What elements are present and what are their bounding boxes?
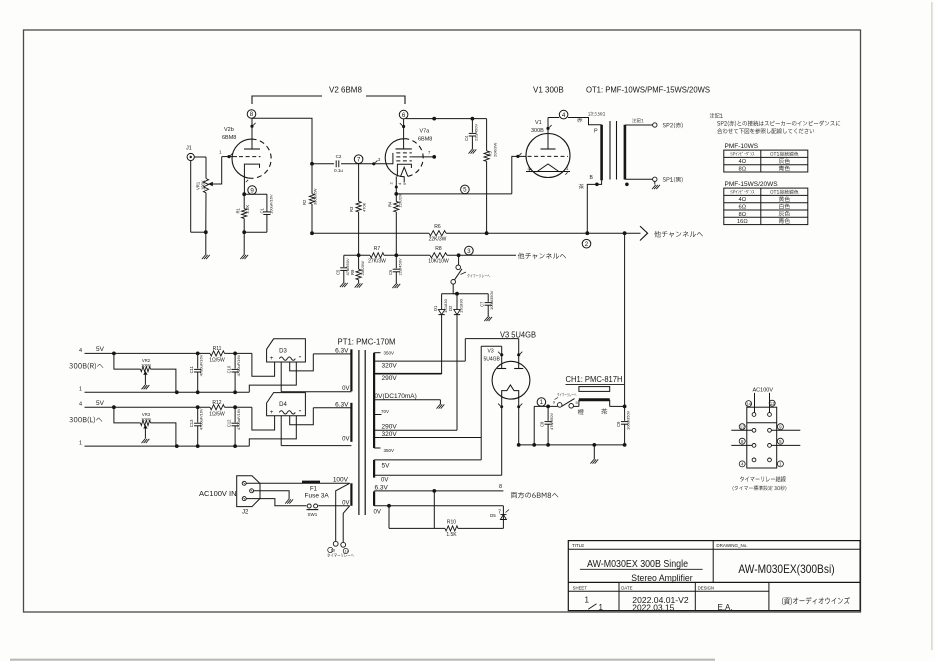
svg-text:E.A.: E.A. — [718, 603, 733, 612]
svg-text:J2: J2 — [242, 510, 249, 516]
svg-text:C9: C9 — [616, 421, 621, 427]
svg-text:4700uF/16V: 4700uF/16V — [199, 354, 204, 376]
svg-text:70V: 70V — [381, 409, 389, 414]
svg-text:-: - — [299, 405, 302, 415]
svg-text:6.3V: 6.3V — [335, 347, 349, 354]
svg-text:12: 12 — [740, 424, 745, 429]
svg-text:V7a: V7a — [420, 129, 431, 135]
svg-text:3: 3 — [467, 248, 471, 255]
svg-text:6BM8: 6BM8 — [222, 135, 236, 141]
svg-text:C11: C11 — [189, 365, 194, 373]
svg-text:C6: C6 — [388, 269, 393, 275]
svg-text:0V: 0V — [381, 477, 388, 483]
svg-text:PMF-15WS/20WS: PMF-15WS/20WS — [725, 181, 779, 188]
svg-text:100V: 100V — [333, 476, 349, 483]
svg-text:290V: 290V — [382, 424, 398, 431]
svg-text:R3: R3 — [349, 206, 354, 212]
svg-text:4700uF/16V: 4700uF/16V — [199, 408, 204, 430]
svg-text:R1: R1 — [236, 207, 241, 213]
svg-text:470K: 470K — [362, 202, 367, 212]
svg-text:4: 4 — [562, 112, 566, 119]
svg-text:C10: C10 — [227, 365, 232, 373]
svg-text:1: 1 — [599, 603, 604, 612]
svg-text:290V: 290V — [382, 375, 398, 382]
svg-text:DRAWING_No.: DRAWING_No. — [716, 543, 747, 548]
svg-text:V1 300B: V1 300B — [533, 86, 564, 95]
svg-text:12K/2W: 12K/2W — [398, 193, 403, 207]
svg-text:Stereo Amplifier: Stereo Amplifier — [631, 573, 692, 584]
svg-text:V2 6BM8: V2 6BM8 — [329, 86, 362, 95]
svg-text:14: 14 — [746, 401, 751, 406]
svg-text:1: 1 — [540, 399, 544, 406]
svg-text:+: + — [270, 409, 274, 416]
svg-text:PT1: PMC-170M: PT1: PMC-170M — [338, 338, 396, 347]
svg-text:1S1830: 1S1830 — [459, 298, 464, 313]
svg-text:D3: D3 — [279, 348, 287, 354]
svg-text:1: 1 — [585, 596, 590, 605]
svg-text:6Ω: 6Ω — [739, 205, 747, 211]
svg-text:0V: 0V — [374, 510, 381, 516]
svg-text:1.5K: 1.5K — [446, 532, 457, 538]
svg-text:V3 5U4GB: V3 5U4GB — [500, 330, 536, 339]
svg-text:1: 1 — [79, 441, 82, 447]
svg-text:C12: C12 — [227, 419, 232, 427]
svg-text:8Ω: 8Ω — [739, 212, 747, 218]
svg-text:100Ω: 100Ω — [141, 416, 151, 421]
svg-text:AW-M030EX(300Bsi): AW-M030EX(300Bsi) — [738, 562, 834, 576]
svg-text:P: P — [594, 129, 598, 135]
svg-text:4Ω: 4Ω — [739, 159, 747, 165]
svg-text:6: 6 — [402, 112, 406, 119]
svg-text:D1: D1 — [433, 305, 438, 311]
svg-text:R11: R11 — [213, 346, 222, 352]
svg-text:7: 7 — [357, 156, 361, 163]
svg-text:-: - — [299, 352, 302, 362]
svg-text:AC100V IN: AC100V IN — [199, 489, 237, 498]
svg-text:47u/350V: 47u/350V — [549, 413, 554, 430]
svg-text:22K/3W: 22K/3W — [429, 237, 447, 243]
svg-text:27K/3W: 27K/3W — [368, 259, 386, 265]
svg-text:1Ω/5W: 1Ω/5W — [209, 411, 225, 417]
svg-text:2022.03.15: 2022.03.15 — [632, 603, 674, 613]
svg-text:SW1: SW1 — [308, 512, 318, 517]
svg-text:5U4GB: 5U4GB — [484, 356, 501, 362]
svg-text:AC100V: AC100V — [753, 387, 774, 393]
svg-text:DATE: DATE — [621, 586, 632, 591]
svg-text:R2: R2 — [302, 199, 307, 205]
svg-text:5: 5 — [463, 187, 467, 194]
svg-text:1: 1 — [79, 387, 82, 393]
svg-text:6.3V: 6.3V — [375, 484, 389, 491]
svg-text:320V: 320V — [382, 431, 398, 438]
svg-text:C7: C7 — [480, 301, 485, 307]
svg-text:100u/350V: 100u/350V — [489, 290, 494, 310]
svg-text:D2: D2 — [448, 305, 453, 311]
svg-text:100u/350V: 100u/350V — [626, 410, 631, 430]
svg-text:C4: C4 — [464, 135, 469, 141]
svg-text:8Ω: 8Ω — [739, 167, 747, 173]
svg-text:SHEET: SHEET — [573, 586, 588, 591]
svg-text:R9: R9 — [350, 269, 355, 275]
svg-text:14: 14 — [345, 549, 350, 554]
svg-text:4700uF/16V: 4700uF/16V — [236, 408, 241, 430]
svg-text:20K/3W: 20K/3W — [493, 143, 498, 157]
svg-text:4Ω: 4Ω — [739, 197, 747, 203]
svg-text:0V(DC170mA): 0V(DC170mA) — [375, 393, 417, 400]
svg-text:V3: V3 — [488, 348, 494, 354]
svg-text:8: 8 — [499, 484, 502, 490]
svg-text:C1: C1 — [260, 207, 265, 213]
svg-text:6BM8: 6BM8 — [418, 137, 432, 143]
svg-text:D4: D4 — [279, 402, 287, 408]
svg-text:TITLE: TITLE — [572, 543, 584, 548]
svg-text:300B: 300B — [531, 128, 544, 134]
svg-text:10K/10W: 10K/10W — [428, 259, 449, 265]
svg-text:R12: R12 — [212, 400, 221, 406]
svg-text:4: 4 — [79, 348, 82, 354]
svg-text:350V: 350V — [384, 351, 395, 356]
svg-text:0.1u: 0.1u — [334, 168, 343, 173]
svg-text:2: 2 — [585, 241, 589, 248]
svg-text:22u/450V: 22u/450V — [474, 124, 479, 141]
svg-text:9: 9 — [250, 187, 254, 194]
svg-text:100K: 100K — [201, 180, 206, 190]
svg-text:R6: R6 — [434, 224, 441, 230]
svg-text:C2: C2 — [336, 154, 342, 159]
svg-text:+: + — [270, 355, 274, 362]
svg-text:R4: R4 — [388, 201, 393, 207]
svg-text:Fuse 3A: Fuse 3A — [305, 493, 330, 500]
svg-text:350V: 350V — [384, 448, 395, 453]
svg-text:100Ω: 100Ω — [141, 363, 151, 368]
svg-text:4: 4 — [79, 402, 82, 408]
svg-text:R7: R7 — [374, 246, 381, 252]
svg-text:320V: 320V — [382, 362, 398, 369]
svg-text:V2b: V2b — [224, 127, 234, 133]
svg-text:8: 8 — [250, 111, 254, 118]
svg-text:C8: C8 — [540, 421, 545, 427]
svg-text:DESIGN: DESIGN — [698, 586, 714, 591]
svg-text:OT1: PMF-10WS/PMF-15WS/20WS: OT1: PMF-10WS/PMF-15WS/20WS — [586, 86, 710, 95]
svg-text:20K/3W: 20K/3W — [360, 261, 365, 275]
svg-text:2.2K: 2.2K — [245, 205, 250, 214]
svg-text:V1: V1 — [535, 120, 542, 126]
svg-text:R10: R10 — [447, 519, 456, 525]
svg-text:J1: J1 — [186, 146, 192, 152]
svg-text:CH1: PMC-817H: CH1: PMC-817H — [566, 375, 623, 384]
svg-text:R8: R8 — [435, 246, 442, 252]
svg-text:16Ω: 16Ω — [737, 219, 748, 225]
svg-text:PMF-10WS: PMF-10WS — [725, 143, 759, 150]
svg-text:C5: C5 — [336, 269, 341, 275]
svg-text:5V: 5V — [96, 400, 105, 407]
svg-text:13: 13 — [770, 401, 775, 406]
svg-text:100uF/16V: 100uF/16V — [269, 194, 274, 214]
svg-text:5V: 5V — [382, 462, 391, 469]
svg-text:AW-M030EX 300B Single: AW-M030EX 300B Single — [587, 559, 688, 570]
svg-text:C13: C13 — [189, 419, 194, 427]
svg-text:D5: D5 — [490, 513, 496, 518]
svg-text:5V: 5V — [96, 346, 105, 353]
svg-text:4700uF/16V: 4700uF/16V — [236, 354, 241, 376]
svg-text:0V: 0V — [342, 437, 349, 443]
svg-text:1Ω/5W: 1Ω/5W — [209, 358, 225, 364]
svg-text:300K/2W: 300K/2W — [313, 188, 318, 205]
svg-text:22u/450V: 22u/450V — [398, 258, 403, 275]
